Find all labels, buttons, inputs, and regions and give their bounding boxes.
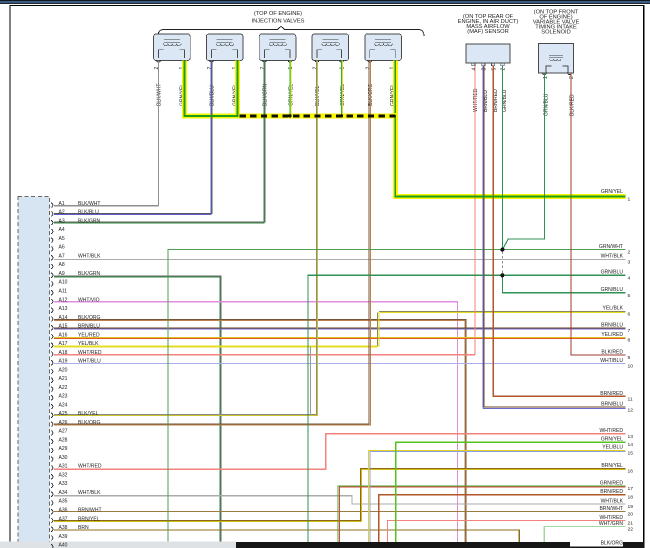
svg-text:A6: A6 [59,245,65,251]
edge label 6 YEL/BLK [603,306,631,318]
splice dot A [500,248,504,252]
svg-text:A10: A10 [59,280,68,286]
ECM pin A32 [51,473,67,480]
wire A37 BRN/YEL jog up to edge 16 [54,468,626,521]
svg-text:WHT/RED: WHT/RED [599,428,623,434]
svg-text:GRN/RED: GRN/RED [600,480,624,486]
svg-text:A17: A17 [59,341,68,347]
wire WHT/GRN from bottom module to edge 22 [544,526,625,541]
edge label 13 WHT/RED [599,428,633,440]
wire MAF pin 2 GRN/BLU down to splice [501,66,503,250]
svg-text:11: 11 [628,397,633,403]
svg-text:GRN/WHT: GRN/WHT [599,244,623,250]
svg-text:2: 2 [154,67,160,70]
svg-text:A26: A26 [59,420,68,426]
edge label 21 WHT/RED [599,515,633,527]
caption MAF sensor [458,14,519,35]
ECM pin A38 [51,525,89,532]
edge label 3 WHT/BLK [601,254,631,266]
svg-text:A14: A14 [59,315,68,321]
svg-text:21: 21 [628,521,634,527]
ECM pin A9 [51,271,100,278]
ECM pin A39 [51,534,67,541]
svg-text:A16: A16 [59,332,68,338]
svg-text:8: 8 [628,338,631,344]
ECM pin A33 [51,481,67,488]
svg-text:BLK/WHT: BLK/WHT [157,84,163,106]
injector valve 5 pin labels [366,67,397,107]
ECM pin A37 [51,516,100,523]
wire GRN/BLU from bottom module to edge 4 [308,275,626,542]
svg-text:19: 19 [628,504,634,510]
svg-text:BLK/GRN: BLK/GRN [78,218,101,224]
svg-text:GRN/YEL: GRN/YEL [601,436,623,442]
svg-text:A38: A38 [59,525,68,531]
svg-text:A24: A24 [59,402,68,408]
svg-text:3: 3 [628,259,631,265]
svg-text:5: 5 [492,68,498,71]
svg-text:A15: A15 [59,324,68,330]
wire A18 WHT/RED to MAF pin 4 [54,66,475,355]
ECM pin A23 [51,394,67,401]
splice dot B [500,273,504,277]
svg-text:4: 4 [628,275,631,281]
highlighted GRN/YEL green core [184,61,626,197]
ECM pin A28 [51,437,67,444]
ECM pin A17 [51,341,99,348]
ECM pin A3 [51,218,100,225]
wire A9 BLK/GRN down to bottom module [54,276,221,542]
svg-text:A9: A9 [59,271,65,277]
svg-text:5: 5 [628,293,631,299]
svg-text:A27: A27 [59,429,68,435]
svg-text:BRN/BLU: BRN/BLU [601,322,623,328]
svg-text:A32: A32 [59,473,68,479]
wire WHT/RED from bottom module to edge 21 [387,520,625,541]
edge label 11 BRN/RED [600,391,633,403]
svg-text:1: 1 [628,197,631,203]
svg-text:A11: A11 [59,289,68,295]
wire VVT pin 2 BLK/RED to edge 9 [571,73,626,355]
wire A36 BRN/WHT to edge 20 [54,511,626,513]
caption injection valves [252,11,305,25]
svg-text:14: 14 [628,442,634,448]
bottom gray strip [0,542,236,548]
edge label 15 YEL/BLU [602,445,633,457]
svg-text:YEL/BLK: YEL/BLK [603,306,624,312]
ECM pin A7 [51,254,101,261]
wire A38 BRN down to bottom module [54,530,519,542]
bottom component black bar [236,542,644,548]
svg-text:A2: A2 [59,210,65,216]
VVT pin labels [543,76,576,116]
svg-text:GRN/YEL: GRN/YEL [601,189,623,195]
svg-text:A1: A1 [59,201,65,207]
edge label 7 BRN/BLU [601,322,630,334]
svg-text:A21: A21 [59,376,68,382]
svg-text:A12: A12 [59,297,68,303]
svg-text:12: 12 [628,407,634,413]
black dashes of highlighted bus [240,114,396,117]
edge label 17 GRN/RED [600,480,634,492]
svg-text:A37: A37 [59,516,68,522]
svg-text:A31: A31 [59,464,68,470]
svg-text:A29: A29 [59,446,68,452]
svg-text:BRN/WHT: BRN/WHT [78,508,102,514]
wire GRN/BLU splice branch to edge 5 [502,275,625,293]
ECM pin A5 [51,236,65,243]
wire A16 YEL/RED to edge 8 [54,337,626,338]
svg-text:WHT/RED: WHT/RED [78,350,102,356]
edge label 23 BLK/ORG [570,537,623,547]
svg-text:A36: A36 [59,508,68,514]
bus junction dot at injector 3 [288,114,291,117]
ECM pin A24 [51,402,67,409]
wire A1 BLK/WHT to injector 1 pin 2 [54,61,159,206]
svg-text:BRN/WHT: BRN/WHT [599,506,623,512]
wire A2 BLK/BLU to injector 2 pin 2 [54,61,212,215]
svg-text:A33: A33 [59,481,68,487]
svg-text:WHT/RED: WHT/RED [473,88,479,112]
wire A14 BLK/ORG down to bottom module [54,319,466,541]
svg-text:17: 17 [628,486,634,492]
ECM pin A30 [51,455,67,462]
page border right [643,5,644,548]
svg-text:WHT/VIO: WHT/VIO [78,297,100,303]
wire YEL/BLU from bottom module to edge 15 [369,450,626,542]
svg-text:GRN/BLU: GRN/BLU [601,287,624,293]
svg-text:BRN/RED: BRN/RED [600,391,623,397]
svg-text:A3: A3 [59,218,65,224]
svg-text:GRN/BLU: GRN/BLU [502,89,508,112]
injector valve 2 [206,34,243,62]
svg-text:YEL/BLU: YEL/BLU [602,445,623,451]
svg-text:(TOP OF ENGINE): (TOP OF ENGINE) [254,11,302,17]
svg-text:20: 20 [628,512,634,518]
svg-text:WHT/BLU: WHT/BLU [600,358,623,364]
svg-text:BLK/YEL: BLK/YEL [78,411,99,417]
brace over injection valves [158,26,424,36]
svg-text:WHT/BLK: WHT/BLK [601,498,624,504]
ECM pin A12 [51,297,99,304]
svg-text:A7: A7 [59,254,65,260]
wire injector 4 pin 1 GRN/YEL drop to bus [342,61,343,116]
svg-text:YEL/RED: YEL/RED [601,332,623,338]
edge label 2 GRN/WHT [599,244,631,256]
ECM pin A31 [51,464,102,471]
svg-text:A18: A18 [59,350,68,356]
svg-text:WHT/BLK: WHT/BLK [78,490,101,496]
svg-text:A19: A19 [59,359,68,365]
VVT solenoid box [539,44,574,75]
svg-text:2: 2 [501,68,507,71]
caption VVT solenoid [533,10,580,36]
wire GRN/YEL from bottom module to edge 14 [396,442,626,542]
edge label 22 WHT/GRN [599,521,633,533]
wire A17 YEL/BLK jog up to edge 6 [54,311,626,347]
svg-text:A35: A35 [59,499,68,505]
edge label 4 GRN/BLU [601,270,631,282]
wire A34 WHT/BLK jog down to edge 19 [54,496,626,504]
ECM pin A6 [51,245,65,252]
ECM connector A (dashed) [18,196,50,548]
wire MAF pin 3 BRN/BLU to edge 12 [483,66,626,409]
wire VVT pin 1 GRN/BLU to splice [502,73,544,250]
svg-text:16: 16 [628,469,634,475]
injector valve 3 [259,34,296,62]
svg-text:WHT/BLK: WHT/BLK [601,254,624,260]
highlighted GRN/YEL yellow band: V1 pin1 and V2 pin1 drops, solid run, dashed bus, V5 pin1 drop and run to edge 1 [182,61,626,197]
ECM pin A4 [51,227,65,234]
page border top [10,5,645,6]
edge label 5 GRN/BLU [601,287,631,299]
svg-text:YEL/BLK: YEL/BLK [78,341,99,347]
svg-text:A22: A22 [59,385,68,391]
svg-text:BLK/WHT: BLK/WHT [78,201,100,207]
stub wire WHT/BLK at A25 row [310,347,312,415]
splice dashed link [501,252,503,274]
wire GRN/RED from bottom module to edge 17 [338,486,626,542]
window top bar [0,0,650,4]
injector valve 4 [312,34,349,62]
wire injector 3 pin 1 GRN/YEL drop to bus [290,61,291,116]
edge label 8 YEL/RED [601,332,630,344]
ECM pin A14 [51,315,100,322]
svg-text:BRN/BLU: BRN/BLU [601,402,623,408]
injector valve 2 pin labels [207,67,238,107]
svg-text:SOLENOID: SOLENOID [541,30,570,36]
edge label 16 BRN/YEL [601,463,633,475]
svg-text:WHT/GRN: WHT/GRN [599,521,623,527]
ECM pin A13 [51,306,67,313]
svg-text:A28: A28 [59,437,68,443]
wire GRN/WHT from bottom module to edge 2 [168,250,626,542]
ECM pin A8 [51,262,65,269]
svg-text:BRN/RED: BRN/RED [600,489,623,495]
svg-text:A13: A13 [59,306,68,312]
injector valve 5 [365,34,402,62]
svg-text:BLK/BLU: BLK/BLU [78,210,99,216]
wire A26 BLK/ORG to injector 5 pin 2 [54,61,370,426]
svg-text:(MAF) SENSOR: (MAF) SENSOR [467,29,508,35]
svg-text:7: 7 [628,328,631,334]
edge label 18 BRN/RED [600,489,633,501]
svg-text:BLK/ORG: BLK/ORG [601,541,624,547]
edge label 1 GRN/YEL [601,189,631,203]
MAF sensor box [466,44,510,66]
svg-text:15: 15 [628,450,634,456]
MAF pin labels [472,68,509,113]
svg-text:A34: A34 [59,490,68,496]
injector valve 3 pin labels [260,67,294,107]
wire A12 WHT/VIO down to bottom module [54,302,457,542]
svg-text:13: 13 [628,434,634,440]
svg-text:YEL/RED: YEL/RED [78,332,100,338]
wire A31 WHT/RED jog up to edge 13 [54,434,626,469]
svg-text:22: 22 [628,527,634,533]
svg-text:A23: A23 [59,394,68,400]
ECM pin A18 [51,350,102,357]
wire A25 BLK/YEL to injector 4 pin 2 [54,61,318,416]
svg-text:6: 6 [628,311,631,317]
svg-text:BRN: BRN [78,525,89,531]
svg-text:2: 2 [628,250,631,256]
ECM pin A35 [51,499,67,506]
svg-text:BLK/GRN: BLK/GRN [78,271,101,277]
ECM pin A20 [51,367,67,374]
svg-text:INJECTION VALVES: INJECTION VALVES [252,19,305,25]
svg-text:BRN/YEL: BRN/YEL [601,463,623,469]
svg-text:A20: A20 [59,367,68,373]
ECM pin A22 [51,385,67,392]
ECM pin A21 [51,376,67,383]
ECM pin A15 [51,324,100,331]
ECM pin A26 [51,420,100,427]
bus junction dot at injector 4 [340,114,343,117]
edge label 9 BLK/RED [601,350,630,362]
ECM pin A1 [51,201,100,208]
wire BRN/RED from bottom module to edge 18 [379,495,626,542]
svg-text:A8: A8 [59,262,65,268]
edge label 19 WHT/BLK [601,498,634,510]
svg-text:WHT/BLK: WHT/BLK [78,254,101,260]
svg-text:BLK/ORG: BLK/ORG [78,315,101,321]
svg-text:A25: A25 [59,411,68,417]
svg-text:GRN/BLU: GRN/BLU [601,270,624,276]
wire A15 BRN/BLU to edge 7 [54,328,626,329]
edge label 10 WHT/BLU [600,358,633,370]
ECM pin A19 [51,359,101,366]
svg-text:WHT/BLU: WHT/BLU [78,359,101,365]
ECM pin A10 [51,280,67,287]
ECM pin A11 [51,289,67,296]
ECM pin A36 [51,508,101,515]
svg-text:A4: A4 [59,227,65,233]
ECM pin A34 [51,490,101,497]
ECM pin A40 [51,543,67,548]
wire MAF pin 5 BRN/RED to edge 11 [493,66,625,397]
svg-text:A5: A5 [59,236,65,242]
page border left [10,5,11,542]
wire A3 BLK/GRN to injector 3 pin 2 [54,61,265,224]
svg-text:1: 1 [543,76,549,79]
svg-text:A39: A39 [59,534,68,540]
svg-text:BLK/ORG: BLK/ORG [78,420,101,426]
injector valve 4 pin labels [313,67,346,107]
svg-text:2: 2 [569,76,575,79]
injector valve 1 [154,34,191,62]
ECM pin A2 [51,210,99,217]
ECM pin A27 [51,429,67,436]
edge label 20 BRN/WHT [599,506,633,518]
edge label 14 GRN/YEL [601,436,633,448]
ECM pin A29 [51,446,67,453]
svg-text:A40: A40 [59,543,68,548]
injector valve 1 pin labels [154,67,185,107]
ECM pin A25 [51,411,98,418]
ECM pin A16 [51,332,100,339]
svg-text:BRN/BLU: BRN/BLU [78,324,100,330]
svg-text:WHT/RED: WHT/RED [78,464,102,470]
wire A7 WHT/BLK to edge 3 [54,258,626,260]
svg-text:BLK/RED: BLK/RED [601,350,623,356]
svg-text:10: 10 [628,364,634,370]
svg-text:18: 18 [628,495,634,501]
edge label 12 BRN/BLU [601,402,633,414]
wire A19 WHT/BLU to edge 10 [54,363,626,365]
svg-text:BRN/YEL: BRN/YEL [78,516,100,522]
svg-text:9: 9 [628,355,631,361]
svg-text:A30: A30 [59,455,68,461]
